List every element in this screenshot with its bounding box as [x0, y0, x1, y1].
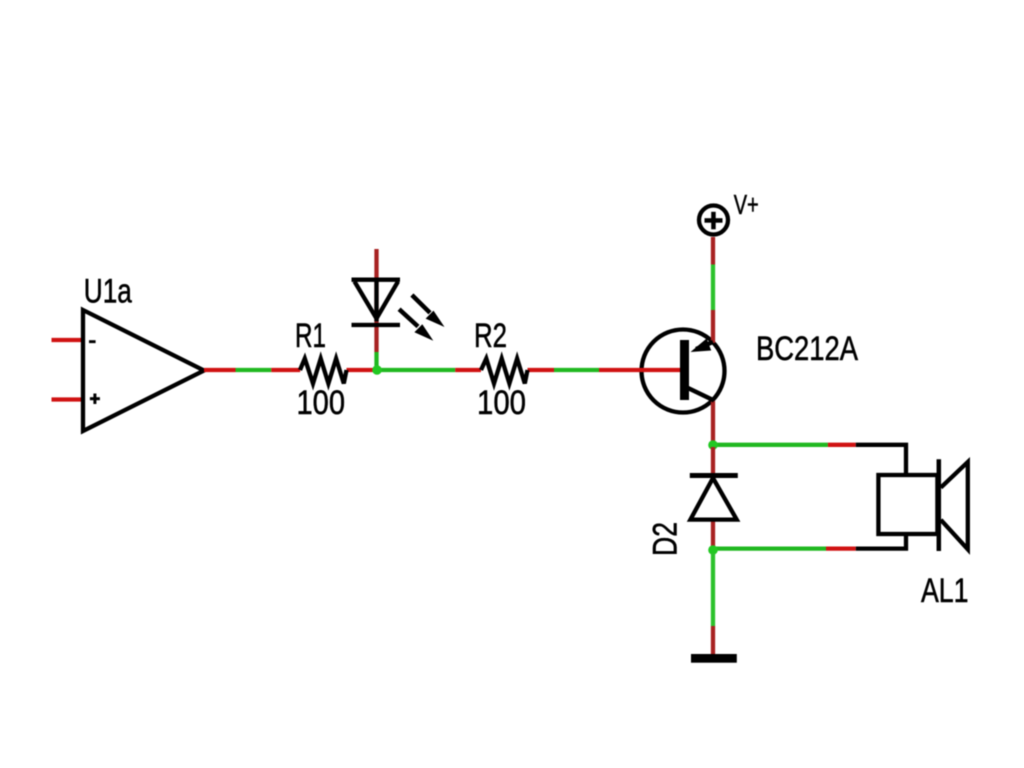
- svg-text:R1: R1: [295, 317, 326, 355]
- svg-text:BC212A: BC212A: [756, 330, 858, 368]
- svg-text:AL1: AL1: [921, 572, 969, 610]
- svg-text:R2: R2: [474, 317, 507, 355]
- svg-text:D2: D2: [647, 522, 685, 556]
- svg-text:V+: V+: [734, 189, 759, 220]
- svg-text:U1a: U1a: [84, 273, 133, 311]
- svg-text:100: 100: [477, 384, 526, 422]
- svg-text:100: 100: [297, 384, 346, 422]
